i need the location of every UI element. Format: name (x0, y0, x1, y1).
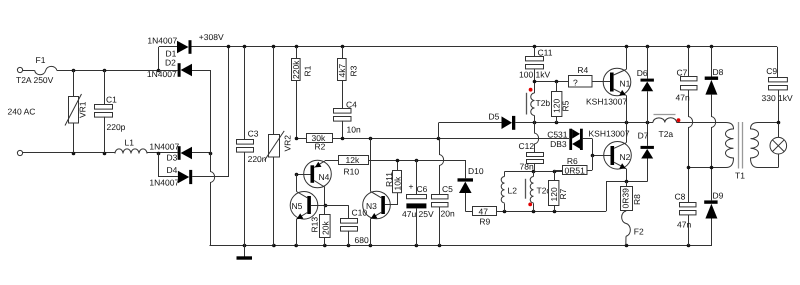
svg-text:T2b: T2b (536, 98, 551, 108)
svg-text:C7: C7 (677, 68, 688, 78)
svg-text:47n: 47n (677, 220, 691, 230)
svg-text:T2A 250V: T2A 250V (16, 75, 54, 85)
transistor N4 (295, 160, 332, 205)
svg-text:C6: C6 (417, 184, 428, 194)
svg-text:D4: D4 (167, 165, 178, 175)
svg-text:N2: N2 (620, 152, 631, 162)
resistor R6 (554, 155, 593, 175)
capacitor C12 (519, 123, 544, 172)
svg-text:C12: C12 (519, 141, 535, 151)
svg-text:N4: N4 (319, 172, 330, 182)
svg-text:R2: R2 (315, 142, 326, 152)
svg-text:L2: L2 (508, 186, 518, 196)
svg-text:KSH13007: KSH13007 (586, 96, 627, 106)
resistor R8 (621, 181, 643, 210)
transformer T2b (527, 82, 551, 123)
wire W2 (369, 159, 465, 163)
svg-text:47: 47 (479, 206, 489, 216)
svg-text:C11: C11 (538, 48, 553, 58)
svg-text:4k7: 4k7 (337, 64, 347, 78)
diode D10 (458, 160, 484, 212)
svg-text:+308V: +308V (199, 32, 224, 42)
svg-text:47u 25V: 47u 25V (402, 209, 434, 219)
net label +308V (199, 32, 224, 42)
wire AC top (23, 69, 159, 73)
svg-text:220p: 220p (107, 122, 126, 132)
svg-text:47n: 47n (676, 93, 690, 103)
lamp (770, 137, 787, 154)
resistor R3 (337, 47, 359, 108)
svg-text:D3: D3 (167, 153, 178, 163)
svg-text:D5: D5 (489, 112, 500, 122)
transistor N5 (290, 174, 327, 246)
svg-text:R6: R6 (567, 156, 578, 166)
net label 240 AC (8, 107, 36, 117)
diode D3 (149, 141, 212, 162)
svg-text:D6: D6 (637, 68, 648, 78)
svg-text:D8: D8 (713, 67, 724, 77)
svg-text:78n: 78n (520, 162, 534, 172)
svg-text:C5: C5 (442, 184, 453, 194)
ground (237, 246, 253, 260)
svg-text:1N4007: 1N4007 (149, 141, 179, 151)
fuse F1 (16, 55, 57, 85)
svg-text:F2: F2 (634, 227, 644, 237)
svg-text:20n: 20n (441, 209, 455, 219)
svg-text:N5: N5 (292, 201, 303, 211)
diode D5 (439, 112, 535, 139)
svg-text:12k: 12k (346, 155, 360, 165)
svg-text:1N4007: 1N4007 (147, 69, 177, 79)
resistor R9 (473, 206, 505, 226)
resistor R11 (384, 160, 403, 205)
svg-text:C9: C9 (766, 66, 777, 76)
svg-text:C8: C8 (675, 192, 686, 202)
wire C11 junction (533, 80, 569, 84)
svg-text:N3: N3 (366, 201, 377, 211)
wire W3 (505, 170, 563, 174)
wire mid bus line A (533, 121, 653, 125)
transformer T2c (526, 172, 552, 212)
terminal AC bottom (17, 150, 22, 155)
svg-text:10n: 10n (347, 125, 361, 135)
svg-text:T1: T1 (735, 171, 745, 181)
svg-text:F1: F1 (36, 55, 46, 65)
capacitor C10 (325, 205, 369, 245)
svg-text:?: ? (573, 78, 578, 88)
svg-text:N1: N1 (620, 79, 631, 89)
varistor VR1 (65, 70, 88, 153)
capacitor C3 (237, 47, 267, 246)
svg-text:R8: R8 (632, 194, 642, 205)
capacitor C7 (676, 47, 698, 168)
resistor R13 (310, 205, 331, 245)
svg-text:D9: D9 (713, 191, 724, 201)
svg-text:R1: R1 (303, 65, 313, 76)
svg-text:C531: C531 (547, 129, 568, 139)
svg-text:KSH13007: KSH13007 (589, 129, 630, 139)
transformer T2a (653, 115, 727, 140)
wire lamp top (758, 121, 781, 138)
svg-text:R3: R3 (349, 65, 359, 76)
svg-text:220n: 220n (248, 154, 267, 164)
capacitor C4 (334, 100, 361, 139)
resistor R2 (295, 133, 333, 152)
svg-text:C4: C4 (346, 100, 357, 110)
transistor N1 (586, 47, 631, 123)
capacitor C1 (95, 70, 126, 153)
resistor R5 (551, 82, 570, 123)
transformer T1 (726, 122, 759, 181)
svg-text:330 1kV: 330 1kV (762, 93, 794, 103)
diode D2 (147, 58, 211, 80)
varistor VR2 (265, 47, 293, 246)
diac DB3 C531 (547, 129, 630, 156)
svg-text:R5: R5 (561, 100, 571, 111)
svg-text:R7: R7 (558, 188, 568, 199)
svg-text:1N4007: 1N4007 (147, 36, 177, 46)
wire T1 bottom (687, 166, 727, 170)
diode D9 (704, 168, 723, 247)
wire negative bus (210, 70, 215, 246)
svg-text:10k: 10k (393, 176, 403, 190)
svg-text:L1: L1 (125, 138, 135, 148)
svg-text:C3: C3 (248, 129, 259, 139)
resistor R1 (291, 47, 313, 138)
svg-text:R10: R10 (344, 167, 360, 177)
fuse F2 (622, 211, 644, 246)
svg-text:220k: 220k (291, 60, 301, 79)
diode D6 (637, 47, 654, 123)
svg-text:VR2: VR2 (283, 135, 293, 152)
svg-text:680: 680 (355, 235, 369, 245)
svg-text:T2a: T2a (659, 129, 674, 139)
capacitor C6 (402, 160, 434, 246)
svg-text:0R51: 0R51 (565, 165, 586, 175)
inductor L1 (115, 138, 147, 154)
svg-text:0R39: 0R39 (621, 188, 631, 209)
svg-text:240 AC: 240 AC (8, 107, 36, 117)
svg-text:R4: R4 (577, 65, 588, 75)
svg-text:C1: C1 (106, 95, 117, 105)
diode D7 (625, 123, 654, 184)
svg-text:20k: 20k (320, 221, 330, 235)
wire W1 (333, 137, 569, 141)
svg-text:R11: R11 (384, 172, 394, 187)
svg-text:R9: R9 (479, 217, 490, 227)
wire AC bottom (23, 152, 159, 156)
resistor R4 (569, 65, 611, 88)
capacitor C9 (762, 66, 794, 123)
transistor N3 (363, 138, 398, 245)
capacitor C5 (432, 139, 455, 246)
inductor L2 (501, 172, 517, 212)
resistor R7 (549, 172, 569, 212)
svg-text:VR1: VR1 (78, 101, 88, 118)
svg-text:D7: D7 (638, 131, 649, 141)
wire lamp return line (503, 181, 626, 213)
wire lamp bottom (758, 154, 779, 168)
svg-text:100 1kV: 100 1kV (519, 69, 551, 79)
terminal AC top (17, 67, 22, 72)
svg-text:1N4007: 1N4007 (149, 177, 179, 187)
capacitor C11 (519, 47, 553, 82)
diode D4 (149, 47, 228, 187)
wire +308V rail (192, 45, 778, 77)
svg-text:R13: R13 (310, 217, 320, 233)
svg-text:+: + (409, 182, 414, 192)
svg-text:D2: D2 (165, 58, 176, 68)
transistor N2 (591, 123, 632, 182)
diode D8 (705, 47, 724, 168)
diode D1 (147, 36, 191, 73)
svg-text:D10: D10 (468, 166, 484, 176)
resistor R10 (325, 155, 369, 176)
capacitor C8 (675, 168, 697, 246)
wire bottom rail (210, 244, 711, 248)
svg-text:DB3: DB3 (550, 139, 567, 149)
